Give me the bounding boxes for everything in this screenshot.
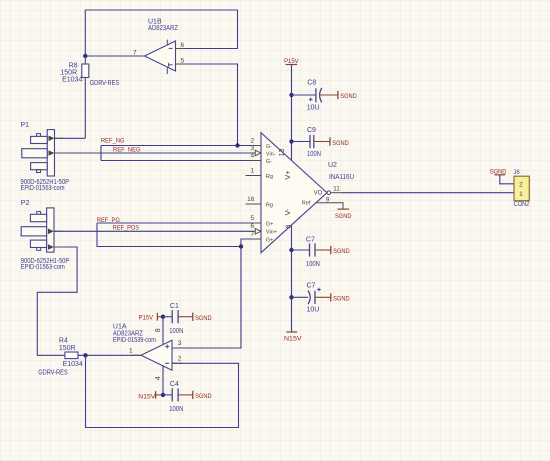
wire: pin4 G-: [101, 160, 251, 162]
svg-text:GDRV-RES: GDRV-RES: [38, 369, 68, 376]
junction: U1A output node: [83, 353, 87, 357]
U2 pin6 arrow: [255, 229, 261, 235]
svg-text:U2: U2: [328, 162, 337, 169]
svg-text:AD823ARZ: AD823ARZ: [148, 25, 179, 32]
svg-text:6: 6: [250, 223, 254, 230]
svg-text:CON2: CON2: [514, 201, 530, 208]
svg-text:C1: C1: [170, 303, 179, 310]
svg-text:1: 1: [250, 168, 254, 175]
svg-text:EPID-01563-com: EPID-01563-com: [21, 264, 65, 271]
svg-text:8: 8: [155, 328, 162, 332]
wire: R8 to P1 pin1: [55, 137, 86, 139]
svg-text:10U: 10U: [307, 104, 320, 111]
junction: guard node: [239, 244, 243, 248]
junction: U1B output node: [83, 54, 87, 58]
wire: U1A pin8 to P15V node: [162, 317, 164, 345]
capacitor C8 10U: [292, 80, 322, 112]
P2 pin 2 arrow: [48, 244, 54, 250]
svg-text:SGND: SGND: [333, 248, 350, 255]
svg-text:EPID-01539-com: EPID-01539-com: [113, 337, 156, 344]
svg-text:P2: P2: [21, 200, 30, 207]
svg-text:C8: C8: [307, 80, 316, 87]
svg-text:E1034: E1034: [62, 76, 82, 83]
P2 pin 1 arrow: [48, 229, 54, 235]
op-amp U1B: [133, 19, 185, 74]
junction: C7a tap: [289, 248, 293, 252]
P2 pin stubs: [54, 230, 63, 232]
svg-text:U1A: U1A: [113, 323, 127, 330]
svg-text:C7: C7: [306, 237, 315, 244]
power port P15V (top): [284, 58, 299, 65]
U2 pin3 arrow: [255, 150, 261, 156]
svg-text:Rg: Rg: [266, 202, 273, 208]
svg-text:GDRV-RES: GDRV-RES: [90, 80, 120, 87]
power port SGND (C7 10U): [315, 293, 350, 302]
svg-text:11: 11: [333, 186, 340, 193]
connector P2: [21, 200, 70, 271]
svg-text:7: 7: [250, 231, 254, 238]
svg-text:V+: V+: [283, 170, 292, 180]
svg-text:1: 1: [129, 348, 133, 355]
svg-text:150R: 150R: [59, 345, 76, 352]
resistor R4: [38, 338, 83, 377]
wire: U1B +input to REF_NG node: [176, 64, 238, 146]
op-amp U1A: [113, 323, 182, 380]
wire: U1A feedback loop bottom: [86, 355, 239, 427]
junction: C7b tap: [289, 295, 293, 299]
svg-text:G+: G+: [266, 237, 274, 243]
wire: REF_POS (P2 to pin6): [54, 230, 251, 232]
svg-text:2: 2: [178, 356, 182, 363]
svg-text:150R: 150R: [60, 69, 77, 76]
power port SGND (CON2): [490, 168, 507, 175]
svg-text:1: 1: [519, 191, 523, 198]
svg-text:100N: 100N: [307, 151, 321, 158]
svg-text:REF_NG: REF_NG: [101, 138, 125, 145]
svg-text:INA116U: INA116U: [329, 174, 354, 181]
wire: V+ rail: [291, 65, 293, 161]
power port SGND (C8): [319, 91, 357, 100]
wire: V- rail: [291, 225, 293, 332]
svg-text:E1034: E1034: [63, 361, 83, 368]
svg-text:6: 6: [181, 42, 185, 49]
power port SGND (C7 100N): [315, 246, 350, 255]
junction: C9 tap: [289, 139, 293, 143]
svg-text:J6: J6: [513, 170, 520, 176]
power port SGND (C9): [314, 137, 349, 146]
svg-text:C9: C9: [307, 127, 316, 134]
wire: pin5 G+: [97, 222, 251, 224]
svg-text:SGND: SGND: [335, 213, 352, 220]
U2 pin stubs left: [251, 145, 262, 147]
svg-text:V-: V-: [283, 208, 292, 216]
svg-text:SGND: SGND: [195, 315, 212, 322]
wire: REF_NG (pin2): [101, 145, 251, 147]
svg-text:10U: 10U: [307, 307, 320, 314]
svg-text:100N: 100N: [169, 406, 183, 413]
svg-text:SGND: SGND: [340, 93, 357, 100]
svg-text:R4: R4: [59, 338, 68, 345]
svg-text:C4: C4: [170, 381, 179, 388]
power port P15V (U1A): [139, 313, 163, 322]
svg-text:7: 7: [133, 49, 137, 56]
svg-text:P15V: P15V: [284, 58, 299, 65]
svg-text:4: 4: [250, 153, 254, 160]
wire: G- tie vertical: [100, 146, 102, 161]
in-amp U2 INA116U: [246, 133, 355, 253]
svg-text:100N: 100N: [306, 261, 320, 268]
svg-text:G+: G+: [266, 221, 274, 227]
svg-text:13: 13: [279, 149, 286, 157]
svg-text:5: 5: [250, 215, 254, 222]
junction: C8 tap: [289, 93, 293, 97]
svg-text:2: 2: [519, 182, 523, 189]
wire: U1A pin4 to N15V node: [162, 366, 164, 395]
svg-text:100N: 100N: [169, 328, 183, 335]
power port SGND (Ref): [335, 209, 352, 220]
svg-text:C7: C7: [307, 282, 316, 289]
capacitor C4 100N: [163, 381, 183, 413]
svg-text:SGND: SGND: [195, 393, 212, 400]
power port N15V (bottom): [284, 332, 302, 342]
capacitor C9 100N: [292, 127, 322, 158]
wire: guard node down to U1A +in: [172, 247, 241, 349]
U1A pin stubs: [131, 354, 142, 356]
power port SGND (C4): [178, 391, 212, 400]
wire: REF_NEG (P1 to pin3): [55, 152, 251, 154]
P1 pin 2 arrow: [49, 150, 55, 156]
P1 pin 1 arrow: [49, 136, 55, 142]
connector P1: [21, 122, 70, 192]
svg-text:SGND: SGND: [333, 296, 350, 303]
power port N15V (U1A): [138, 391, 163, 400]
svg-text:Rg: Rg: [266, 174, 273, 180]
capacitor C1 100N: [163, 303, 183, 335]
U1B pin stubs: [176, 48, 187, 50]
wire: R4 to U1A output: [78, 354, 141, 356]
power port SGND (C1): [178, 313, 212, 322]
wire: guard node up to pin7: [241, 239, 251, 247]
svg-text:N15V: N15V: [284, 335, 302, 342]
wire: SGND to CON2 pin2: [500, 175, 514, 184]
wire: Ref pin to SGND: [316, 203, 343, 209]
svg-text:G-: G-: [266, 144, 272, 150]
wire: G+ tie (pin5 to guard node): [97, 223, 241, 247]
svg-text:3: 3: [178, 340, 182, 347]
svg-text:Ref: Ref: [302, 201, 311, 207]
wire: VO output to CON2: [331, 192, 341, 194]
capacitor C7 10U: [292, 282, 321, 313]
svg-text:16: 16: [247, 196, 255, 203]
wire: P2 shell to R4: [37, 247, 77, 355]
svg-text:2: 2: [250, 138, 254, 145]
svg-text:P15V: P15V: [139, 315, 154, 322]
svg-text:P1: P1: [21, 122, 30, 129]
svg-text:EPID-01563-com: EPID-01563-com: [21, 185, 65, 192]
svg-text:REF_POS: REF_POS: [113, 225, 140, 232]
P1 pin stubs: [55, 137, 64, 139]
junction: C4 node: [161, 393, 165, 397]
svg-text:Vin+: Vin+: [266, 230, 277, 236]
svg-text:SGND: SGND: [332, 140, 349, 147]
resistor R8: [60, 56, 119, 138]
junction: U1B+ tap on REF_NG: [235, 143, 239, 147]
wire: U1B output to R8 node: [85, 55, 144, 57]
svg-text:4: 4: [155, 376, 162, 380]
junction: C1 node: [161, 315, 165, 319]
capacitor C7 100N: [292, 237, 320, 269]
svg-text:Vin-: Vin-: [266, 151, 276, 157]
wire: U1B feedback loop top: [85, 10, 237, 56]
connector J6 CON2: [513, 170, 529, 208]
svg-text:G-: G-: [266, 159, 272, 165]
svg-text:N15V: N15V: [138, 394, 156, 401]
svg-text:VO: VO: [314, 191, 323, 197]
svg-text:3: 3: [250, 145, 254, 152]
